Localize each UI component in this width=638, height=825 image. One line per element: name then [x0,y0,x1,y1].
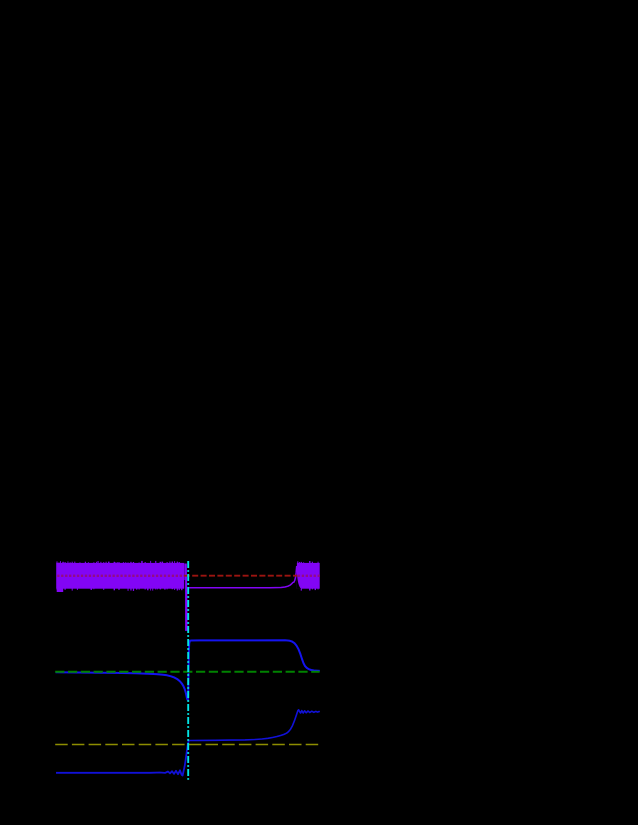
trace V1 purple oscillation envelope block 2 [297,561,320,591]
reference line olive dashed (pane 3) [55,744,319,746]
trace V3 blue right rise (pane 3) [189,710,319,741]
trace V2 blue (pane 2) [56,640,320,700]
trace V1 purple DC recovery line [189,566,297,588]
trace V1 purple oscillation envelope block 1 [56,561,184,592]
trace V1 purple collapse spike [184,564,187,631]
reference line red dashed (pane 1) [184,575,297,577]
black notch inside block 2 [297,574,301,589]
cursor cyan dash-dot vertical line [187,561,189,780]
reference line red marks over purple block 1 [57,575,182,577]
trace V3 blue left flat with ripple (pane 3) [56,741,189,776]
reference line red marks over purple block 2 [298,575,320,577]
reference line green dashed (pane 2) [55,671,319,673]
